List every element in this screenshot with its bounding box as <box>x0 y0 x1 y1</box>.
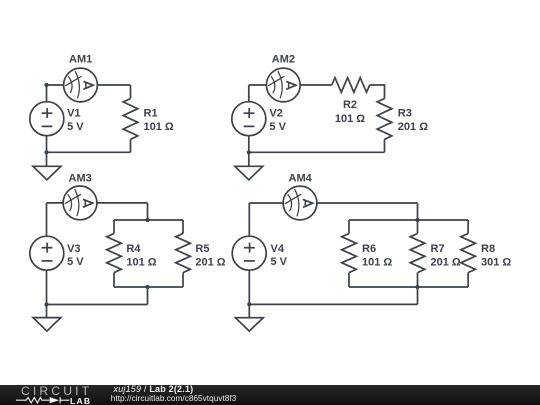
wire: circuit4 parallel bottom rail <box>349 286 468 288</box>
wire: circuit3 right drop to parallel rail <box>147 203 149 220</box>
wire: circuit3 bottom wire <box>47 304 148 306</box>
svg-text:V2: V2 <box>269 108 282 120</box>
node: circuit3 bottom-left junction <box>44 302 48 306</box>
wire: circuit2 top wire V2 to R2 <box>249 84 267 86</box>
wire: circuit4 parallel top rail <box>349 219 468 221</box>
footer url line <box>111 394 237 403</box>
node: circuit2 bottom-left junction <box>247 150 251 154</box>
node: circuit3 parallel top junction <box>145 218 149 222</box>
node: circuit1 top-left junction <box>44 83 48 87</box>
svg-text:201 Ω: 201 Ω <box>195 256 225 268</box>
svg-text:201 Ω: 201 Ω <box>431 256 461 268</box>
wire: circuit1 right branch upper stub <box>130 85 132 99</box>
wire: circuit2 bottom wire <box>249 151 385 153</box>
resistor R2 <box>332 78 370 125</box>
node: circuit4 parallel bottom junction <box>415 285 419 289</box>
wire: circuit2 top right to R3 <box>370 85 385 99</box>
svg-text:V4: V4 <box>271 243 285 255</box>
footer attribution line <box>114 384 194 394</box>
wire: circuit3 top wire <box>47 202 64 204</box>
node: circuit1 bottom-left junction <box>44 150 48 154</box>
svg-text:201 Ω: 201 Ω <box>398 121 428 133</box>
svg-text:AM2: AM2 <box>272 54 295 66</box>
wire: circuit3 center drop from bottom rail <box>147 287 149 305</box>
svg-text:301 Ω: 301 Ω <box>481 256 511 268</box>
svg-text:R8: R8 <box>481 243 495 255</box>
voltage source V1 <box>30 85 84 152</box>
svg-text:101 Ω: 101 Ω <box>362 256 392 268</box>
wire: circuit4 top wire <box>249 202 283 204</box>
svg-text:R1: R1 <box>144 108 158 120</box>
ammeter AM4 <box>283 172 317 220</box>
svg-text:R7: R7 <box>431 243 445 255</box>
resistor R1 <box>123 99 174 140</box>
voltage source V2 <box>232 85 287 152</box>
svg-text:AM4: AM4 <box>289 172 313 184</box>
ground: circuit2 <box>235 152 263 180</box>
voltage source V4 <box>232 203 287 304</box>
ammeter AM2 <box>266 54 300 102</box>
resistor R3 <box>377 99 428 140</box>
node: circuit4 parallel top junction <box>415 218 419 222</box>
wire: circuit1 top wire V1 to R1 through AM1 <box>47 84 64 86</box>
resistor R8 <box>461 220 512 287</box>
CircuitLab logo LAB text <box>70 396 91 405</box>
ground: circuit1 <box>33 152 61 180</box>
svg-text:101 Ω: 101 Ω <box>144 121 174 133</box>
svg-text:R3: R3 <box>398 108 412 120</box>
wire: circuit1 right branch lower stub <box>130 139 132 152</box>
wire: circuit3 parallel bottom rail <box>114 286 183 288</box>
resistor R5 <box>176 220 226 287</box>
wire: circuit2 right branch lower stub <box>384 139 386 152</box>
svg-text:V1: V1 <box>67 108 80 120</box>
svg-text:5 V: 5 V <box>67 256 84 268</box>
node: circuit3 parallel bottom junction <box>145 285 149 289</box>
svg-text:101 Ω: 101 Ω <box>335 113 365 125</box>
ammeter AM1 <box>64 54 98 102</box>
wire: circuit4 right drop to parallel rail <box>417 203 419 220</box>
ground: circuit3 <box>33 305 61 332</box>
resistor R6 <box>342 220 393 287</box>
node: circuit4 bottom-left junction <box>247 302 251 306</box>
svg-text:5 V: 5 V <box>67 121 84 133</box>
wire: circuit3 parallel top rail <box>114 219 183 221</box>
svg-text:R2: R2 <box>343 99 357 111</box>
ground: circuit4 <box>235 304 263 331</box>
wire: circuit4 bottom wire <box>249 303 417 305</box>
svg-text:R6: R6 <box>362 243 376 255</box>
svg-text:V3: V3 <box>67 243 80 255</box>
resistor R4 <box>107 220 157 287</box>
svg-text:R4: R4 <box>126 243 141 255</box>
svg-text:AM1: AM1 <box>69 54 92 66</box>
svg-text:5 V: 5 V <box>269 121 286 133</box>
ammeter AM3 <box>63 172 97 219</box>
wire: circuit1 bottom wire <box>47 151 131 153</box>
svg-text:5 V: 5 V <box>271 256 288 268</box>
resistor R7 <box>410 220 461 287</box>
svg-text:101 Ω: 101 Ω <box>126 256 156 268</box>
CircuitLab logo wordmark <box>21 384 92 398</box>
voltage source V3 <box>30 203 84 305</box>
svg-text:R5: R5 <box>195 243 209 255</box>
wire: circuit4 center drop from bottom rail <box>417 287 419 304</box>
svg-text:AM3: AM3 <box>69 172 92 184</box>
CircuitLab logo schematic squiggle (resistor + diode) <box>0 385 110 405</box>
footer bar <box>0 385 540 405</box>
